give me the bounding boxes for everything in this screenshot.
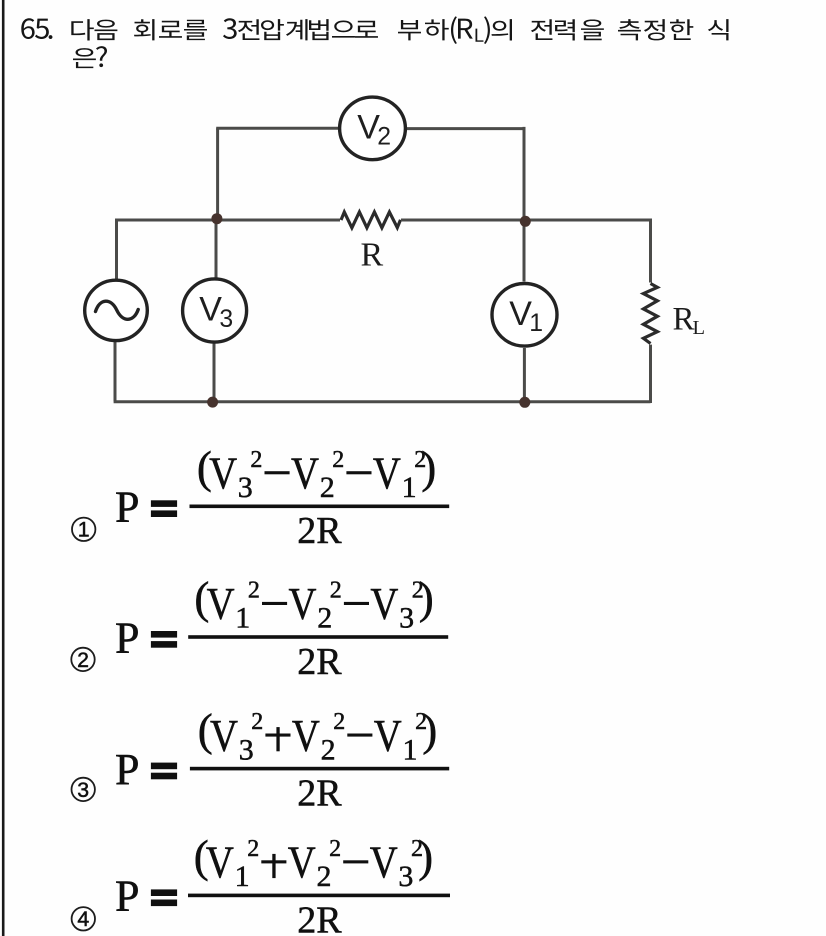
option 3 numerator xyxy=(198,705,437,767)
svg-text:2: 2 xyxy=(251,709,263,735)
option 1 formula P xyxy=(115,483,139,532)
svg-text:2: 2 xyxy=(321,733,336,766)
svg-text:): ) xyxy=(422,705,437,755)
svg-text:2R: 2R xyxy=(297,899,342,936)
svg-text:2: 2 xyxy=(333,709,345,735)
svg-text:2R: 2R xyxy=(297,773,342,815)
option 1 circled number xyxy=(72,518,95,542)
svg-text:L: L xyxy=(693,317,706,339)
svg-text:3: 3 xyxy=(398,860,413,893)
option 2 numerator xyxy=(194,573,433,635)
svg-text:P: P xyxy=(115,613,139,662)
svg-text:1: 1 xyxy=(235,860,250,893)
svg-text:2: 2 xyxy=(317,602,332,635)
svg-text:3: 3 xyxy=(239,733,254,766)
wire: V2 loop right vertical xyxy=(523,127,526,220)
svg-text:V: V xyxy=(291,449,319,499)
svg-text:2: 2 xyxy=(329,836,341,862)
option 4 formula P xyxy=(115,872,139,921)
svg-text:1: 1 xyxy=(235,602,250,635)
option 2 circled number xyxy=(71,648,94,672)
voltmeter V1 xyxy=(492,284,557,347)
wire: V3 bottom lead xyxy=(213,342,216,402)
svg-text:V: V xyxy=(370,838,398,888)
option 3 denominator 2R xyxy=(297,773,342,815)
option 2 fraction bar xyxy=(188,635,448,639)
svg-text:): ) xyxy=(419,573,434,623)
wire: V2 loop top-right horizontal xyxy=(405,127,524,130)
wire: V1 bottom lead xyxy=(523,348,526,402)
option 4 numerator xyxy=(194,832,433,894)
wire: RL top lead xyxy=(649,219,652,283)
svg-text:V: V xyxy=(206,838,234,888)
junction node top-left xyxy=(211,213,222,224)
svg-text:V: V xyxy=(373,449,401,499)
svg-text:V: V xyxy=(374,711,402,761)
svg-text:R: R xyxy=(361,237,384,274)
svg-text:3: 3 xyxy=(77,778,89,802)
option 1 denominator 2R xyxy=(297,510,342,552)
option 3 fraction bar xyxy=(190,767,449,771)
svg-text:P: P xyxy=(115,872,139,921)
resistor RL zigzag xyxy=(643,284,657,344)
option 2 denominator 2R xyxy=(297,641,342,683)
resistor R zigzag xyxy=(341,212,401,228)
svg-text:): ) xyxy=(418,832,433,882)
junction node top-right xyxy=(520,216,531,227)
svg-text:3: 3 xyxy=(219,306,233,333)
svg-text:R: R xyxy=(673,302,695,338)
option 3 circled number xyxy=(72,778,95,802)
svg-text:3: 3 xyxy=(399,602,414,635)
wire: V2 loop top-left horizontal xyxy=(216,127,340,130)
svg-text:2: 2 xyxy=(250,447,262,473)
junction node bottom-right xyxy=(519,397,530,408)
option 4 fraction bar xyxy=(188,894,450,898)
svg-text:V: V xyxy=(289,579,317,629)
wire: source bottom lead xyxy=(114,342,117,402)
voltmeter V3 xyxy=(183,279,247,342)
svg-text:1: 1 xyxy=(402,471,417,504)
wire: V2 loop left vertical xyxy=(216,128,219,219)
option 1 equals sign xyxy=(151,500,177,517)
svg-text:2: 2 xyxy=(317,860,332,893)
svg-text:P: P xyxy=(115,745,139,794)
svg-text:1: 1 xyxy=(403,733,418,766)
svg-text:V: V xyxy=(370,579,398,629)
svg-text:4: 4 xyxy=(77,907,89,931)
svg-text:2: 2 xyxy=(330,578,342,604)
svg-text:2R: 2R xyxy=(297,510,342,552)
option 2 formula P xyxy=(115,613,139,662)
wire: V3 top lead xyxy=(215,220,218,279)
question text xyxy=(21,16,728,68)
option 4 denominator 2R xyxy=(297,899,342,936)
svg-text:2R: 2R xyxy=(297,641,342,683)
AC source xyxy=(85,280,148,340)
svg-text:2: 2 xyxy=(248,578,260,604)
option 3 formula P xyxy=(115,745,139,794)
wire: V1 top lead xyxy=(523,220,526,282)
wire: main top horizontal right segment xyxy=(401,219,651,222)
svg-text:V: V xyxy=(292,711,320,761)
wire: left vertical (source top lead) xyxy=(115,219,118,279)
voltmeter V2 xyxy=(340,97,406,160)
junction node bottom-left xyxy=(207,397,218,408)
svg-text:V: V xyxy=(210,711,238,761)
wire: main top horizontal left segment xyxy=(115,219,340,222)
svg-text:1: 1 xyxy=(529,310,543,337)
option 3 equals sign xyxy=(151,763,177,780)
option 4 equals sign xyxy=(151,889,177,906)
svg-text:2: 2 xyxy=(320,471,335,504)
svg-text:P: P xyxy=(115,483,139,532)
label RL xyxy=(673,302,706,340)
svg-text:2: 2 xyxy=(377,124,391,151)
svg-text:2: 2 xyxy=(77,648,89,672)
svg-text:V: V xyxy=(207,579,235,629)
page left border rule xyxy=(2,0,5,936)
option 1 numerator xyxy=(197,443,436,505)
svg-text:3: 3 xyxy=(238,471,253,504)
option 2 equals sign xyxy=(151,631,177,648)
svg-text:1: 1 xyxy=(78,518,90,542)
option 4 circled number xyxy=(72,907,95,931)
svg-text:2: 2 xyxy=(332,447,344,473)
svg-text:V: V xyxy=(209,449,237,499)
option 1 fraction bar xyxy=(190,505,450,509)
svg-text:2: 2 xyxy=(247,836,259,862)
svg-text:): ) xyxy=(421,443,436,493)
svg-text:V: V xyxy=(288,838,316,888)
wire: bottom horizontal xyxy=(114,400,651,403)
wire: RL bottom lead xyxy=(649,345,652,403)
